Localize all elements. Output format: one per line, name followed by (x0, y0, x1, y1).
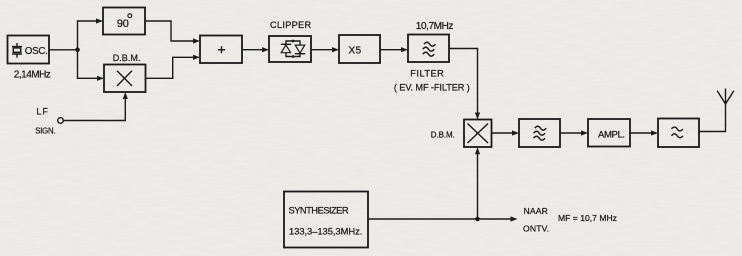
svg-text:133,3–135,3MHz.: 133,3–135,3MHz. (289, 226, 362, 237)
svg-text:10,7MHz: 10,7MHz (416, 21, 454, 32)
wire DBM1 to adder (146, 55, 201, 79)
label D.B.M. (right mixer) (431, 131, 455, 140)
value label 133,3-135,3MHz. (289, 226, 362, 237)
adder block (200, 36, 242, 64)
svg-text:NAAR: NAAR (524, 206, 548, 216)
wire F2 to AMPL (560, 130, 588, 135)
label OSC. (25, 46, 48, 57)
oscillator OSC box (8, 36, 50, 64)
label D.B.M. (left mixer) (113, 53, 141, 63)
svg-text:90: 90 (117, 18, 129, 30)
amplifier AMPL block (588, 119, 630, 147)
svg-text:( EV. MF -FILTER ): ( EV. MF -FILTER ) (394, 83, 470, 93)
label FILTER (410, 68, 444, 78)
label ONTV. (523, 224, 549, 234)
wire F1 to DBM2 (449, 49, 480, 120)
svg-text:OSC.: OSC. (25, 46, 48, 57)
svg-text:CLIPPER: CLIPPER (270, 20, 311, 30)
LF input terminal (58, 118, 64, 124)
svg-text:SYNTHESIZER: SYNTHESIZER (289, 205, 349, 216)
wire junction to DBM2 bottom (475, 147, 480, 219)
multiplier X5 block (339, 35, 380, 63)
filter F1 block (408, 35, 449, 63)
wire F3 to antenna (699, 104, 726, 132)
wire DBM2 to filter F2 (492, 130, 520, 135)
label MF = 10,7 MHz (558, 213, 617, 223)
wire synthesizer to NAAR ONTV. output (368, 216, 518, 221)
svg-text:FILTER: FILTER (410, 68, 444, 78)
svg-text:SIGN.: SIGN. (35, 126, 55, 135)
label SIGN. (35, 126, 55, 135)
filter F2 block (519, 119, 560, 147)
wire 90 block to adder (145, 21, 200, 44)
svg-text:ONTV.: ONTV. (523, 224, 549, 234)
svg-text:MF = 10,7 MHz: MF = 10,7 MHz (558, 213, 617, 223)
junction node after OSC (75, 48, 80, 53)
value label 2,14MHz (14, 70, 51, 81)
svg-text:2,14MHz: 2,14MHz (14, 70, 51, 81)
label CLIPPER (270, 20, 311, 30)
clipper block (anti-parallel diodes) (269, 36, 311, 62)
label NAAR (524, 206, 548, 216)
synthesizer block (284, 192, 368, 248)
junction node on synthesizer line (475, 217, 480, 222)
svg-text:D.B.M.: D.B.M. (431, 131, 455, 140)
crystal symbol inside OSC (12, 43, 22, 58)
label SYNTHESIZER (289, 205, 349, 216)
mixer DBM1 box (104, 65, 146, 93)
phase shifter 90 deg box (103, 8, 145, 35)
wire junction to 90 block (78, 18, 104, 49)
antenna (717, 89, 734, 105)
svg-text:AMPL.: AMPL. (598, 130, 625, 141)
wire junction to DBM1 (78, 50, 105, 81)
wire OSC output to junction (49, 49, 78, 51)
wire adder to clipper (242, 47, 269, 52)
label (EV. MF-FILTER) (394, 83, 470, 93)
svg-text:LF: LF (36, 107, 49, 117)
label LF (36, 107, 49, 117)
wire LF input to DBM1 (63, 92, 128, 121)
svg-text:D.B.M.: D.B.M. (113, 53, 141, 63)
filter F3 block (658, 119, 699, 148)
wire AMPL to filter F3 (630, 130, 658, 135)
value label 10,7MHz (416, 21, 454, 32)
wire X5 to filter F1 (380, 47, 408, 52)
wire clipper to X5 (311, 47, 339, 52)
mixer DBM2 box (464, 120, 492, 148)
svg-text:X5: X5 (349, 46, 362, 57)
